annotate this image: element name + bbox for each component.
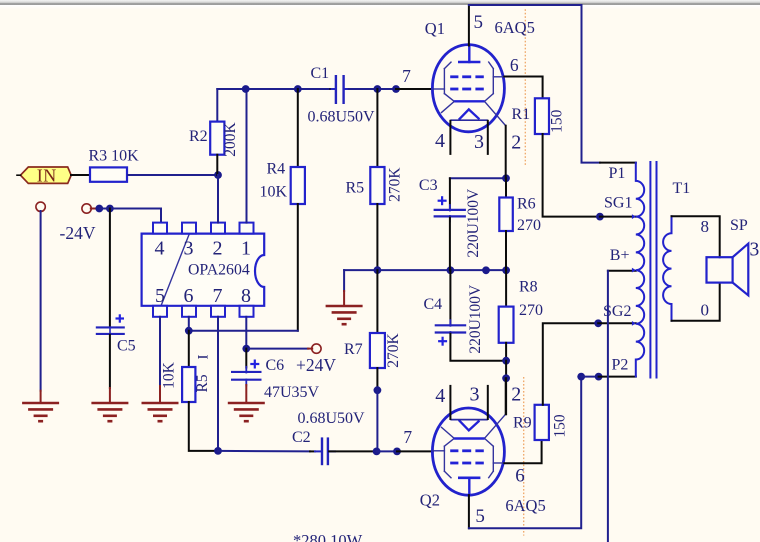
svg-text:SP: SP bbox=[730, 217, 748, 234]
svg-text:R8: R8 bbox=[519, 279, 538, 296]
wire IN to R3 bbox=[71, 174, 90, 176]
tube grid dashes bbox=[450, 75, 458, 78]
wire -24V stub bbox=[91, 208, 97, 210]
svg-text:7: 7 bbox=[403, 427, 412, 447]
svg-text:R1: R1 bbox=[512, 106, 531, 123]
tube grid box bbox=[443, 446, 445, 471]
node dot pin1 top bbox=[242, 85, 250, 93]
svg-text:6AQ5: 6AQ5 bbox=[505, 496, 545, 515]
op-amp U1 OPA2604 body bbox=[142, 234, 265, 306]
wire Q2 pin2 diag end up bbox=[505, 378, 507, 414]
wire C1 right to tube Q1 grid bbox=[349, 88, 396, 90]
wire R6 bottom to rail bbox=[505, 231, 507, 270]
wire top bus to R5 bbox=[376, 89, 378, 167]
svg-text:0.68U50V: 0.68U50V bbox=[308, 109, 376, 126]
svg-text:C5: C5 bbox=[117, 338, 136, 355]
wire C3 top to pin2 rail bbox=[450, 177, 506, 179]
svg-text:2: 2 bbox=[511, 131, 521, 153]
node dot pin2 Q2 top bbox=[502, 374, 510, 382]
wire Q2 pin5 to bottom rail bbox=[468, 495, 470, 528]
op-amp slash bbox=[161, 234, 189, 306]
node dot R8/C4 bbox=[502, 357, 510, 365]
tube envelope bbox=[432, 45, 504, 132]
svg-text:3: 3 bbox=[750, 239, 760, 260]
svg-text:R7: R7 bbox=[344, 341, 363, 358]
svg-text:0.68U50V: 0.68U50V bbox=[298, 410, 366, 427]
wire pin8 node to C6 bbox=[245, 349, 247, 368]
wire C4 bottom corner to R8 bottom bbox=[450, 334, 506, 361]
op-amp pin box top x189 bbox=[182, 223, 196, 234]
svg-text:2: 2 bbox=[213, 237, 223, 259]
svg-text:270: 270 bbox=[519, 302, 543, 319]
wire pin5 to ground bbox=[159, 317, 161, 386]
wire R4 bottom to pin6 bus bbox=[297, 204, 299, 331]
op-amp pin box bottom x189 bbox=[182, 306, 196, 317]
svg-text:5: 5 bbox=[473, 12, 483, 33]
tube beam plate left bbox=[442, 427, 454, 438]
svg-text:IN: IN bbox=[37, 166, 57, 186]
node junction R3/R2/pin2 bbox=[214, 171, 222, 179]
wire R9 top to SG2 bbox=[543, 323, 598, 405]
node dot pin6 bbox=[185, 327, 193, 335]
resistor R8 bbox=[499, 307, 514, 343]
svg-text:OPA2604: OPA2604 bbox=[188, 262, 250, 279]
tube grid stub left bbox=[433, 88, 445, 90]
tube cathode bar bbox=[454, 100, 485, 102]
svg-text:SG1: SG1 bbox=[604, 195, 632, 212]
op-amp pin box top x218 bbox=[211, 223, 225, 234]
wire secondary 0 to speaker bbox=[672, 283, 720, 321]
svg-text:R4: R4 bbox=[267, 161, 286, 178]
wire rail to R8 bbox=[505, 270, 507, 307]
port IN bbox=[21, 167, 72, 183]
node dot SG1 bbox=[596, 213, 604, 221]
node dot R7 bottom bbox=[374, 386, 382, 394]
wire Q1 pin2 diag end down bbox=[505, 126, 507, 179]
svg-text:P2: P2 bbox=[612, 357, 629, 374]
svg-text:1: 1 bbox=[241, 237, 251, 259]
resistor R9 bbox=[535, 405, 549, 440]
op-amp pin box bottom x218 bbox=[211, 306, 225, 317]
node dot P2 left bbox=[577, 373, 585, 381]
ground G4 under C6 bbox=[228, 402, 265, 405]
tube envelope bbox=[432, 408, 504, 495]
svg-text:R2: R2 bbox=[189, 128, 208, 145]
svg-text:220U100V: 220U100V bbox=[465, 188, 482, 258]
wire rail to C4 bbox=[449, 270, 451, 325]
wire C3 vertical top bbox=[449, 178, 451, 208]
node dot rail x486 bbox=[482, 266, 490, 274]
wire R5 bottom to mid rail bbox=[376, 204, 378, 270]
svg-text:4: 4 bbox=[435, 130, 445, 152]
resistor R5dup 10K bbox=[182, 367, 195, 402]
wire C1 node down to R4 bbox=[297, 89, 299, 167]
wire C6 to ground bbox=[245, 385, 247, 403]
tube grid stub right bbox=[493, 462, 504, 464]
wire pin7 down bbox=[217, 317, 219, 451]
svg-text:7: 7 bbox=[213, 285, 223, 307]
svg-text:150: 150 bbox=[552, 414, 569, 438]
wire to +24V terminal bbox=[246, 348, 308, 350]
svg-text:0: 0 bbox=[700, 301, 709, 320]
wire node to opamp pin2 bbox=[217, 175, 219, 223]
op-amp pin box bottom x160 bbox=[153, 306, 167, 317]
capacitor C6 bbox=[231, 371, 262, 373]
wire 10K bottom corner to C2 bus bbox=[189, 402, 218, 451]
svg-text:6: 6 bbox=[184, 285, 194, 307]
svg-text:47U35V: 47U35V bbox=[264, 384, 320, 401]
svg-text:6: 6 bbox=[510, 55, 519, 75]
wire short to C1 bbox=[331, 88, 335, 90]
svg-text:C4: C4 bbox=[424, 296, 443, 313]
terminal circle input ground bbox=[36, 202, 45, 211]
wire Q1 pin6 to R1 bbox=[504, 77, 542, 99]
node dot -24V a bbox=[95, 205, 103, 213]
tube grid stub right bbox=[493, 76, 504, 78]
op-amp pin box top x160 bbox=[153, 223, 167, 234]
wire -24V node to C5 bbox=[109, 209, 111, 326]
resistor R5 270K bbox=[370, 167, 384, 204]
wire R6 top bbox=[505, 178, 507, 197]
transformer secondary winding bbox=[663, 216, 671, 321]
wire feedback pin1 up bbox=[246, 89, 248, 223]
ground G2 under C5 bbox=[91, 402, 128, 405]
wire R7 bottom to C2 node bbox=[376, 368, 378, 390]
wire secondary 8 to speaker bbox=[672, 216, 720, 257]
op-amp pin box top x246.5 bbox=[240, 223, 254, 234]
svg-text:6AQ5: 6AQ5 bbox=[495, 18, 535, 37]
node dot rail C4 bbox=[447, 266, 455, 274]
tube grid box bbox=[443, 69, 445, 94]
tube beam plate left bbox=[442, 102, 454, 113]
ground G5 mid rail bbox=[326, 305, 363, 308]
transformer core bbox=[649, 161, 651, 379]
node dot rail R7 bbox=[374, 266, 382, 274]
capacitor C3 bbox=[434, 209, 466, 211]
svg-text:4: 4 bbox=[155, 237, 165, 259]
wire SG1 to transformer bbox=[600, 216, 636, 218]
svg-text:R5: R5 bbox=[194, 374, 211, 392]
capacitor C1 bbox=[332, 88, 335, 90]
svg-text:*280 10W: *280 10W bbox=[293, 531, 363, 542]
ground G3 under pin5 bbox=[142, 402, 179, 405]
op-amp pin box bottom x246.5 bbox=[240, 306, 254, 317]
wire B+ tap bbox=[608, 270, 636, 272]
wire R3 to node IN2 bbox=[128, 174, 218, 176]
wire main node2 vertical to R2 bbox=[216, 89, 218, 122]
transformer T1 primary winding bbox=[636, 163, 644, 377]
svg-text:10K: 10K bbox=[161, 361, 178, 389]
svg-text:R3 10K: R3 10K bbox=[89, 148, 140, 165]
terminal circle -24V bbox=[82, 204, 91, 213]
wire mid rail bbox=[344, 269, 506, 271]
svg-text:5: 5 bbox=[475, 506, 485, 527]
wire P2 bbox=[581, 376, 598, 378]
svg-text:R6: R6 bbox=[517, 196, 536, 213]
resistor R1 bbox=[535, 98, 549, 134]
tube beam plate right lead to pin2 bbox=[485, 414, 506, 438]
capacitor C2 bbox=[321, 437, 323, 465]
wire C5 to ground bbox=[109, 335, 111, 388]
svg-text:+24V: +24V bbox=[296, 355, 336, 375]
svg-text:10K: 10K bbox=[260, 184, 288, 201]
svg-text:4: 4 bbox=[435, 385, 445, 407]
tube beam plate right lead to pin2 bbox=[485, 102, 506, 126]
svg-text:Q1: Q1 bbox=[425, 19, 445, 38]
svg-text:8: 8 bbox=[241, 285, 251, 307]
svg-text:C2: C2 bbox=[292, 429, 311, 446]
speaker SP horn bbox=[733, 244, 749, 296]
capacitor C4 bbox=[435, 324, 467, 326]
svg-text:270K: 270K bbox=[385, 332, 402, 367]
wire Q1 pin5 to top rail bbox=[468, 5, 470, 46]
svg-text:6: 6 bbox=[515, 466, 525, 487]
wire bottom rail bbox=[469, 377, 581, 529]
node dot R5 top bbox=[374, 85, 382, 93]
wire R1 bottom to SG1 bbox=[543, 134, 600, 217]
node dot C3/R6 top bbox=[502, 174, 510, 182]
tube heater pin leads bbox=[449, 121, 451, 154]
wire C2 bus left bbox=[218, 450, 310, 453]
wire pin6 stub bbox=[188, 317, 190, 331]
ground G1 bbox=[22, 402, 59, 405]
wire R2 bottom to node bbox=[216, 155, 218, 175]
transformer tap nubs bbox=[632, 214, 636, 219]
node dot C2/R7 bbox=[373, 448, 381, 456]
resistor R6 bbox=[499, 198, 513, 232]
terminal circle +24V bbox=[312, 344, 321, 353]
wire pin6 to 10K resistor bbox=[188, 331, 190, 367]
tube anode bbox=[468, 478, 470, 495]
wire to Q2 pin2 bbox=[505, 378, 507, 414]
node dot pin7/C2 bbox=[214, 447, 222, 455]
wire R8 bottom bbox=[505, 343, 507, 361]
node dot 7 wire bbox=[392, 85, 400, 93]
svg-text:3: 3 bbox=[474, 131, 484, 153]
svg-text:Q2: Q2 bbox=[420, 491, 440, 510]
svg-text:150: 150 bbox=[549, 109, 566, 133]
wire pin8 down bbox=[245, 317, 247, 349]
svg-text:I: I bbox=[196, 355, 212, 360]
svg-text:R5: R5 bbox=[346, 180, 365, 197]
tube grid dashes bbox=[450, 462, 458, 465]
wire rail to R7 bbox=[376, 270, 378, 333]
svg-text:270K: 270K bbox=[387, 167, 404, 202]
tube cathode bar bbox=[454, 437, 485, 439]
tube grid stub left bbox=[433, 450, 445, 452]
tube heater bbox=[459, 420, 480, 430]
tube heater pin leads bbox=[449, 386, 451, 419]
svg-text:P1: P1 bbox=[609, 165, 626, 182]
wire top bus left bbox=[217, 88, 330, 90]
svg-text:3: 3 bbox=[470, 384, 480, 406]
wire Q2 pin6 to R9 bbox=[504, 440, 541, 463]
guide line (orange) near Q2 bbox=[523, 377, 525, 536]
svg-text:C6: C6 bbox=[266, 357, 285, 374]
svg-text:3: 3 bbox=[184, 237, 194, 259]
tube heater bbox=[459, 109, 480, 119]
svg-text:-24V: -24V bbox=[60, 223, 96, 243]
svg-text:200K: 200K bbox=[222, 121, 239, 156]
resistor R2 bbox=[210, 122, 224, 155]
wire SG2 to transformer bbox=[598, 322, 636, 324]
svg-text:270: 270 bbox=[517, 217, 541, 234]
node dot pin8/+24V bbox=[242, 345, 250, 353]
svg-text:7: 7 bbox=[402, 66, 411, 86]
resistor R7 bbox=[370, 333, 385, 368]
svg-text:T1: T1 bbox=[673, 180, 691, 197]
guide line (orange) near Q1 bbox=[524, 9, 526, 166]
wire -24V to opamp pin4 bbox=[99, 208, 161, 210]
wire C3 bottom to rail bbox=[449, 218, 451, 271]
svg-text:220U100V: 220U100V bbox=[467, 284, 484, 354]
svg-text:C1: C1 bbox=[311, 65, 330, 82]
resistor R3 bbox=[90, 167, 127, 181]
node dot rail R6-R8 bbox=[502, 266, 510, 274]
speaker SP box bbox=[707, 257, 733, 282]
node dot P2 right bbox=[595, 373, 603, 381]
capacitor C5 bbox=[96, 326, 125, 328]
tube anode bbox=[468, 45, 470, 62]
svg-text:5: 5 bbox=[155, 285, 165, 307]
svg-text:B+: B+ bbox=[610, 247, 630, 264]
resistor R4 bbox=[291, 167, 305, 204]
wire terminal to ground bbox=[40, 211, 42, 391]
wire C2 right bbox=[329, 450, 377, 452]
node dot 7 Q2 bbox=[393, 448, 401, 456]
node dot -24V b bbox=[106, 205, 114, 213]
wire top rail bbox=[469, 5, 600, 163]
node dot R4 top bbox=[294, 85, 302, 93]
svg-text:C3: C3 bbox=[419, 177, 438, 194]
node dot SG2 bbox=[594, 319, 602, 327]
svg-text:8: 8 bbox=[700, 217, 709, 236]
svg-text:R9: R9 bbox=[513, 415, 532, 432]
svg-text:2: 2 bbox=[511, 384, 521, 406]
